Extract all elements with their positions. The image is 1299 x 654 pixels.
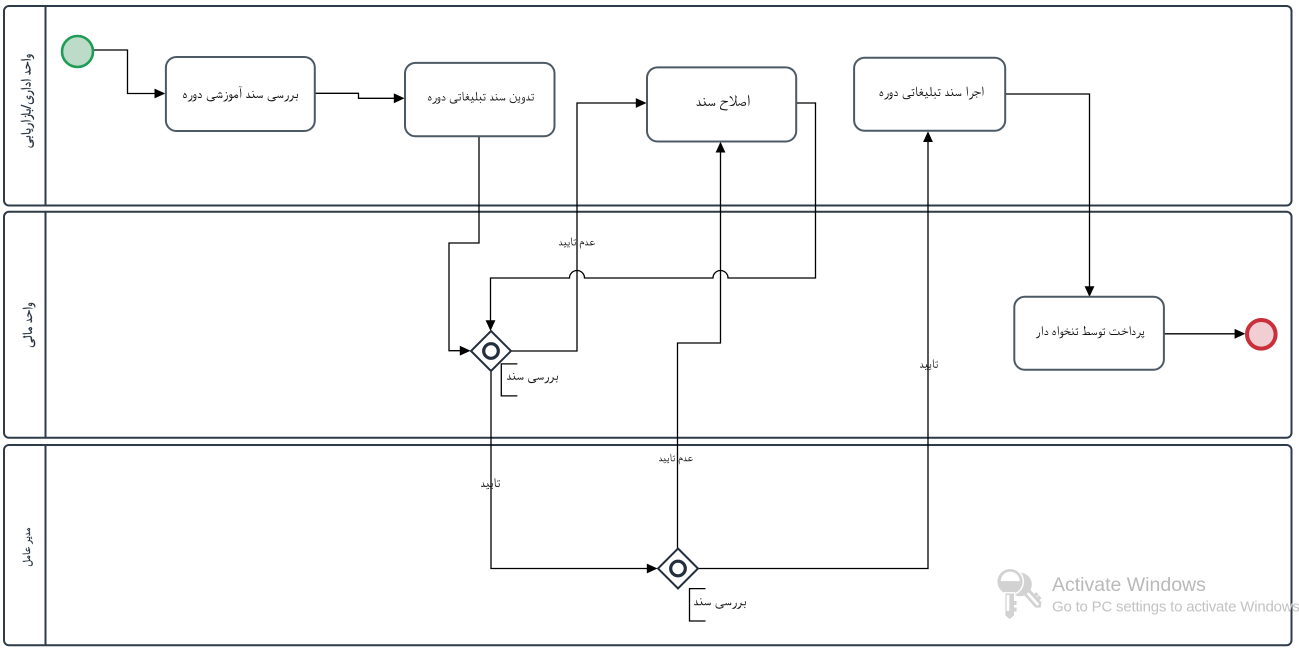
arrowhead into gateway 1 left (460, 346, 471, 356)
lane 3 (مدیر عامل) pool rect (4, 445, 1292, 645)
wire start event to task 1 (93, 50, 155, 94)
annotation text بررسی سند (694, 598, 746, 609)
svg-text:Activate Windows: Activate Windows (1052, 574, 1206, 596)
lane 2 header divider (45, 212, 47, 438)
lane 1 (واحد اداری/بازاریابی) pool rect (4, 6, 1292, 206)
lane 3 label مدیر عامل (22, 528, 33, 566)
wire gateway 1 bottom to gateway 2 (تایید branch) (491, 371, 647, 569)
arrowhead into gateway 2 left (647, 564, 658, 574)
lane 1 label واحد اداری/بازاریابی (21, 54, 34, 147)
wire task 2 down to gateway 1 (449, 137, 479, 351)
task 4 label (880, 86, 984, 99)
end event (red circle) (1247, 320, 1276, 349)
wire task 1 to task 2 (315, 93, 394, 98)
wire gateway 1 to task 3 (عدم تایید branch) (511, 103, 636, 351)
annotation text بررسی سند (507, 373, 558, 384)
task 1 بررسی سند آموزشی دوره (166, 57, 315, 131)
lane 1 header divider (45, 6, 47, 206)
label عدم تایید on wire (lane 3) (659, 453, 693, 464)
arrowhead into task 2 (394, 93, 405, 103)
wire gateway 2 right to task 4 bottom (تایید branch) (698, 142, 928, 569)
label تایید on wire (481, 478, 500, 490)
lane 2 label واحد مالی (22, 303, 35, 347)
arrowhead into end event (1235, 329, 1246, 339)
task 1 label (183, 86, 298, 101)
wire task 4 right to task 5 top (1005, 94, 1089, 287)
arrowhead into task 1 (155, 89, 166, 99)
wire task 3 right back to gateway 1 top, with two line hops (491, 103, 816, 321)
task 3 اصلاح سند (647, 67, 796, 141)
gateway 2 (inclusive, مدیر عامل lane) (658, 549, 698, 589)
start event (green circle) (62, 36, 93, 67)
task 3 label (696, 95, 749, 111)
task 5 label (1036, 326, 1145, 339)
Activate Windows watermark keys icon (997, 568, 1049, 619)
lane 2 (واحد مالی) pool rect (4, 212, 1292, 438)
task 4 اجرا سند تبلیغاتی دوره (854, 58, 1005, 131)
label تایید on wire (920, 359, 938, 370)
annotation bracket for gateway 2 (690, 589, 706, 621)
label عدم تایید on wire (559, 237, 595, 249)
wire task 5 right to end event (1164, 333, 1235, 335)
gateway 1 (inclusive, واحد مالی lane) (471, 331, 511, 371)
arrowhead into task 3 left (636, 98, 647, 108)
lane 3 header divider (45, 445, 47, 645)
arrowhead into gateway 1 top (486, 320, 496, 331)
arrowhead into task 4 bottom (923, 131, 933, 142)
task 2 label (428, 91, 534, 104)
arrowhead into task 5 top (1085, 286, 1095, 297)
wire gateway 2 top to task 3 bottom (عدم تایید branch) (678, 152, 721, 548)
svg-text:Go to PC settings to activate: Go to PC settings to activate Windows (1052, 599, 1299, 616)
annotation bracket for gateway 1 (501, 364, 517, 396)
arrowhead into task 3 bottom (716, 142, 726, 153)
task 5 پرداخت توسط تنخواه دار (1014, 297, 1164, 370)
task 2 تدوین سند تبلیغاتی دوره (405, 63, 555, 136)
